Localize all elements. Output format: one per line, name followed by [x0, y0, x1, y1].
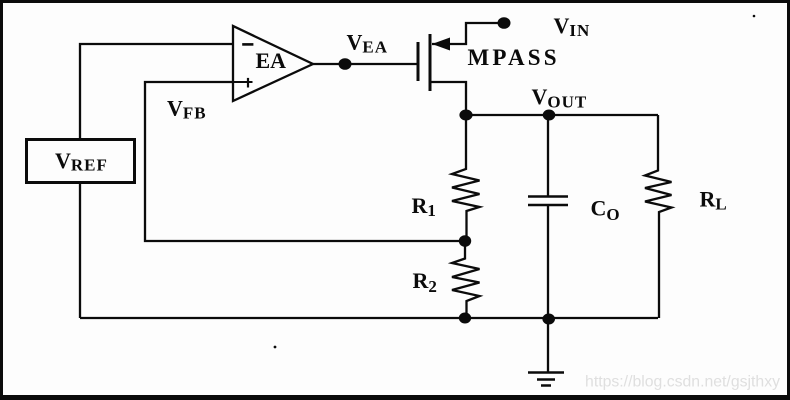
- svg-text:MPASS: MPASS: [468, 45, 560, 70]
- svg-text:EA: EA: [256, 48, 287, 73]
- svg-text:https://blog.csdn.net/gsjthxy: https://blog.csdn.net/gsjthxy: [585, 374, 780, 391]
